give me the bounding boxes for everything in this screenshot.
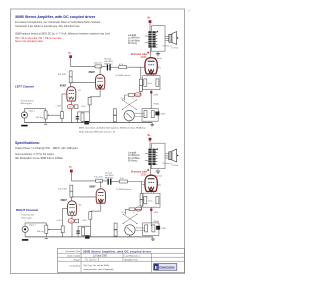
svg-text:For lowest microphonics, use Y: For lowest microphonics, use Yamamoto Si… — [15, 21, 101, 24]
right channel output stage (copy of left) — [128, 135, 178, 226]
svg-text:Yamamoto 4-pin holder is speci: Yamamoto 4-pin holder is special type, f… — [15, 25, 81, 28]
svg-text:Amplifier Part: Amplifier Part — [125, 259, 139, 262]
svg-text:Last Revision: L: Last Revision: L — [125, 255, 141, 258]
right channel driver stage (copy of left) — [22, 167, 167, 241]
svg-text:Meter indicates 6SN7 pole out: Meter indicates 6SN7 pole out w.b = 10 — [79, 130, 116, 133]
svg-text:Document Title: Document Title — [65, 250, 80, 253]
svg-text:E: E — [155, 265, 158, 270]
svg-text:13-Sept-2006: 13-Sept-2006 — [93, 255, 108, 258]
left channel driver stage — [21, 52, 166, 126]
svg-text:Input sensitivity: 0,7V for f: Input sensitivity: 0,7V for full output — [15, 153, 54, 156]
svg-text:Pages: Pages — [74, 260, 81, 262]
svg-text:Idle Dissipation of one 300B t: Idle Dissipation of one 300B tube is 22W… — [15, 157, 63, 160]
svg-text:Dipl. Ing. Jac van de Walle: Dipl. Ing. Jac van de Walle — [84, 265, 111, 267]
svg-text:300B Stereo Amplifier, with DC: 300B Stereo Amplifier, with DC coupled d… — [15, 15, 96, 19]
title block table — [58, 249, 185, 273]
svg-text:LEFT Channel: LEFT Channel — [15, 84, 34, 88]
svg-text:Never use oil-paper caps.: Never use oil-paper caps. — [15, 40, 44, 43]
svg-text:Created by: Created by — [69, 264, 81, 267]
svg-text:37: 37 — [187, 9, 191, 13]
svg-text:300B balance tested at 280V DC: 300B balance tested at 280V DC by +/- 7,… — [15, 32, 110, 35]
svg-text:Output Power = 11 Watt @ 5Hz .: Output Power = 11 Watt @ 5Hz .. 28kHz, w… — [15, 147, 78, 150]
EML logo — [154, 264, 177, 271]
svg-text:Date created: Date created — [67, 255, 80, 258]
svg-text:Specifications:: Specifications: — [15, 141, 40, 145]
left channel output stage — [128, 18, 178, 109]
svg-text:6SN7 must share +4,3mA on bot: 6SN7 must share +4,3mA on both systems, … — [79, 127, 147, 130]
svg-text:www.jacmusic.com (Copyrig: www.jacmusic.com (Copyright) — [84, 268, 114, 271]
svg-text:300B Stereo Amplifier, with DC: 300B Stereo Amplifier, with DC coupled d… — [83, 249, 151, 253]
page border frame — [11, 9, 185, 274]
svg-text:RIGHT Channel: RIGHT Channel — [16, 208, 38, 212]
svg-text:EMISSION: EMISSION — [159, 265, 175, 269]
